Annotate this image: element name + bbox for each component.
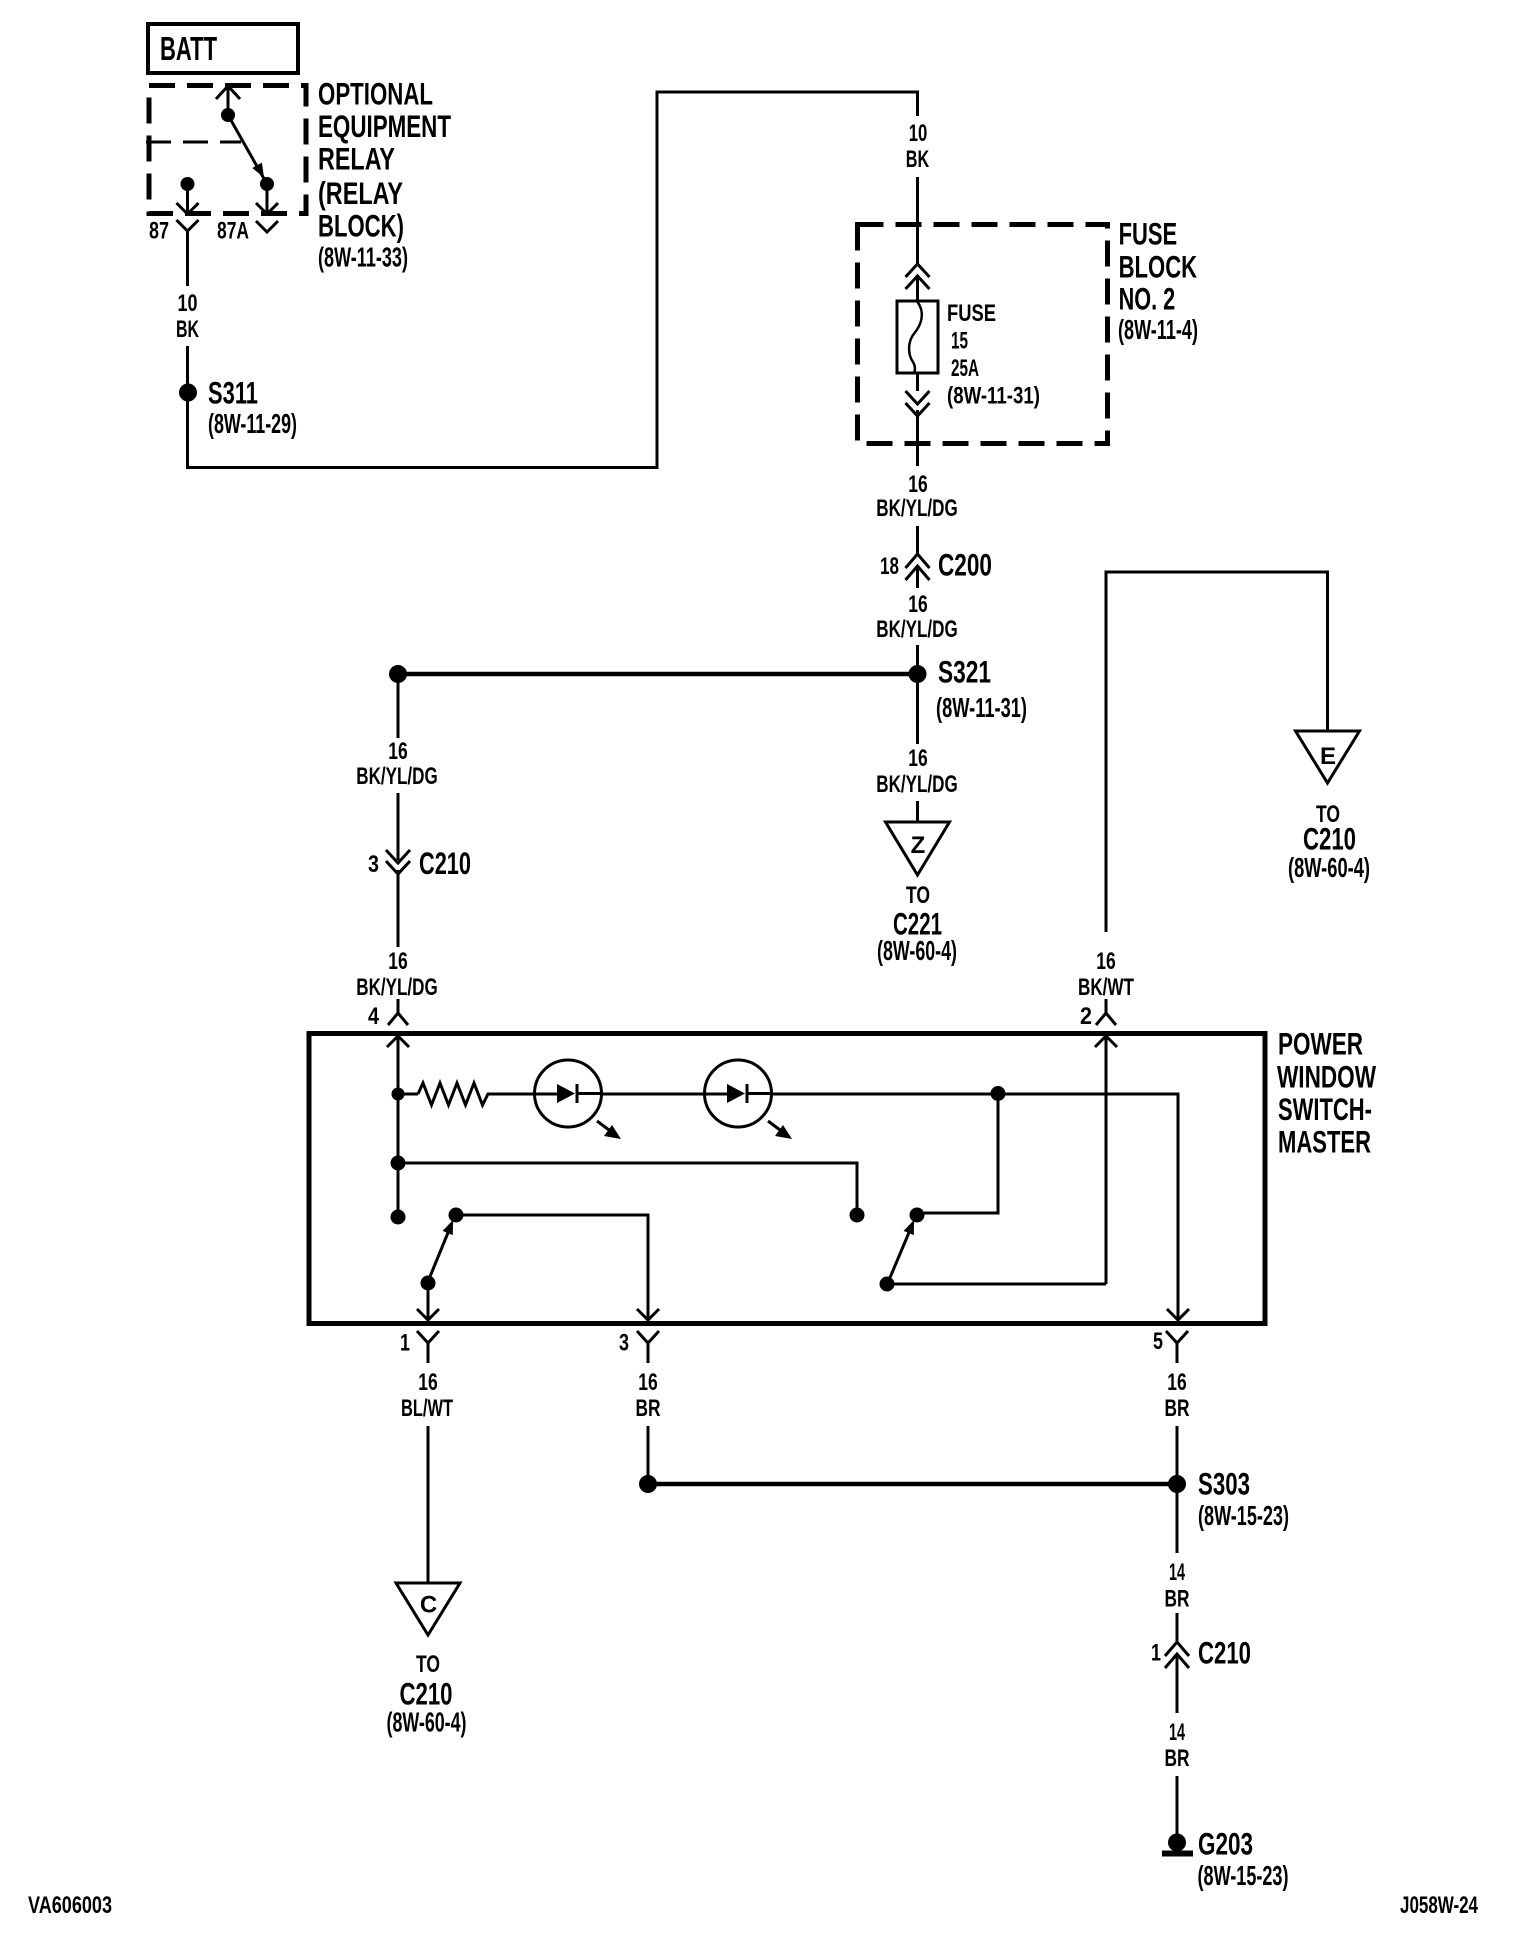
- splice S303 label: [1198, 1466, 1289, 1531]
- svg-text:16: 16: [638, 1369, 657, 1396]
- power window switch-master label: [1277, 1026, 1376, 1160]
- wire left switch pivot to pin 1: [427, 1283, 430, 1320]
- fuse block no. 2 name text: [1118, 216, 1198, 345]
- svg-text:BR: BR: [1165, 1395, 1190, 1422]
- pin 1 connector Y below box: [417, 1331, 439, 1363]
- svg-text:16: 16: [1167, 1369, 1186, 1396]
- connector C200 chevrons (pointing up): [906, 554, 930, 588]
- wire pin 3 to splice S303: [647, 1426, 650, 1476]
- wire S303 down: [1176, 1493, 1179, 1553]
- pin 3 arrow inside box: [637, 1309, 659, 1320]
- pin 5 connector Y below box: [1166, 1331, 1188, 1363]
- svg-text:2: 2: [1080, 1003, 1092, 1030]
- fuse block no. 2 dashed outline: [858, 225, 1108, 444]
- relay coil divider dashed line: [146, 141, 241, 144]
- wire label 16 BR (pin 5): [1165, 1369, 1190, 1422]
- svg-text:3: 3: [619, 1330, 629, 1357]
- svg-text:(8W-60-4): (8W-60-4): [1288, 852, 1370, 883]
- svg-text:BR: BR: [1165, 1745, 1190, 1772]
- splice S321 left dot: [389, 665, 407, 683]
- svg-text:16: 16: [1096, 948, 1115, 975]
- svg-text:BLOCK: BLOCK: [1119, 249, 1198, 285]
- svg-text:(8W-15-23): (8W-15-23): [1198, 1860, 1289, 1891]
- svg-text:BK/YL/DG: BK/YL/DG: [876, 616, 957, 643]
- switch pin 2 connector (outside chevron): [1096, 999, 1116, 1025]
- relay pin 87 terminal arrow: [177, 184, 199, 214]
- wire left rail down from resistor junction: [397, 1094, 400, 1217]
- svg-text:(8W-11-31): (8W-11-31): [936, 692, 1027, 723]
- wire below S321 left dot: [397, 683, 400, 738]
- svg-text:J058W-24: J058W-24: [1400, 1892, 1478, 1919]
- wire out of fuse block: [916, 410, 919, 466]
- junction dot lamp feed: [991, 1086, 1006, 1101]
- svg-text:G203: G203: [1198, 1826, 1253, 1862]
- wire label 16 BK/WT: [1078, 948, 1134, 1001]
- row 2 wire to lock rail: [398, 1163, 857, 1215]
- switch pin 4 arrow inside box: [387, 1036, 409, 1047]
- LED lamp 2: [705, 1060, 772, 1127]
- wire junction down to right switch: [924, 1094, 998, 1213]
- pin 1 arrow inside box: [417, 1309, 439, 1320]
- LED 2 emission arrow: [768, 1121, 792, 1139]
- svg-text:POWER: POWER: [1278, 1026, 1363, 1062]
- wire resistor to LED 1: [491, 1093, 557, 1096]
- svg-text:16: 16: [388, 948, 407, 975]
- wire pin 2 down inside box: [1105, 1036, 1108, 1284]
- wire from S311 around to fuse block (down, right, up, right): [188, 92, 918, 468]
- wire pin 87 down segment: [186, 246, 189, 286]
- svg-text:C210: C210: [1198, 1635, 1251, 1671]
- svg-text:S311: S311: [208, 375, 258, 411]
- destination label TO C210 (pin 1): [387, 1651, 467, 1737]
- connector C210 chevrons (pointing down): [386, 850, 410, 890]
- wire label 16 BK/YL/DG (left branch upper): [356, 738, 437, 790]
- pin 87A connector chevron below block: [256, 221, 278, 232]
- junction dot row 2: [391, 1156, 406, 1171]
- battery feed box BATT: [148, 24, 298, 73]
- splice S303 right dot: [1168, 1475, 1186, 1493]
- svg-text:25A: 25A: [951, 355, 979, 382]
- svg-text:BK: BK: [176, 316, 199, 343]
- svg-text:S321: S321: [938, 654, 991, 690]
- destination label TO C221: [877, 882, 957, 966]
- svg-text:16: 16: [388, 738, 407, 765]
- svg-text:(8W-15-23): (8W-15-23): [1198, 1500, 1289, 1531]
- left switch fixed contact dot: [449, 1208, 464, 1223]
- pin 87 connector Y below block: [177, 220, 199, 246]
- wire to splice S321: [916, 645, 919, 667]
- pin 5 arrow inside box: [1167, 1309, 1189, 1320]
- svg-text:BL/WT: BL/WT: [401, 1395, 453, 1422]
- ground G203 symbol: [1162, 1834, 1193, 1854]
- svg-text:FUSE: FUSE: [947, 300, 996, 327]
- left switch arm with arrow: [429, 1220, 453, 1279]
- svg-text:S303: S303: [1198, 1466, 1250, 1502]
- svg-text:BK/WT: BK/WT: [1078, 974, 1134, 1001]
- svg-text:10: 10: [909, 120, 928, 147]
- wire left switch contact to pin 3: [456, 1215, 648, 1320]
- E branch wire from pin 2 up and over: [1106, 572, 1328, 932]
- right switch pivot dot: [880, 1277, 895, 1292]
- splice S311 dot: [179, 384, 197, 402]
- wire label 16 BR (pin 3): [636, 1369, 661, 1422]
- svg-text:16: 16: [908, 471, 927, 498]
- svg-text:87A: 87A: [217, 218, 249, 245]
- svg-text:NO. 2: NO. 2: [1119, 281, 1176, 317]
- wire label 16 BK/YL/DG (below C200): [876, 591, 957, 643]
- svg-text:C210: C210: [419, 845, 471, 881]
- svg-text:1: 1: [400, 1330, 410, 1357]
- svg-text:(8W-60-4): (8W-60-4): [387, 1706, 467, 1737]
- relay common terminal arrow (to BATT): [216, 86, 240, 116]
- wire to ground G203: [1176, 1776, 1179, 1834]
- wire label 14 BR (upper): [1165, 1559, 1190, 1613]
- svg-text:OPTIONAL: OPTIONAL: [318, 76, 433, 112]
- wire right switch pivot to pin 2 drop: [887, 1283, 1106, 1286]
- svg-text:16: 16: [908, 591, 927, 618]
- svg-text:5: 5: [1153, 1328, 1163, 1355]
- splice S321 label: [936, 654, 1027, 723]
- svg-text:10: 10: [178, 290, 198, 317]
- wire into fuse block: [916, 177, 919, 264]
- svg-text:87: 87: [149, 218, 169, 245]
- relay switch arm (movable contact): [228, 115, 267, 184]
- svg-text:16: 16: [418, 1369, 437, 1396]
- wire LED 1 to LED 2: [601, 1093, 727, 1096]
- left switch pivot dot: [421, 1276, 436, 1291]
- LED 1 emission arrow: [597, 1121, 621, 1139]
- inline connector chevrons below fuse (pointing down): [906, 373, 930, 416]
- inline connector chevrons above fuse (pointing up): [906, 264, 930, 302]
- relay contact dot 87: [181, 177, 195, 191]
- svg-text:MASTER: MASTER: [1278, 1124, 1371, 1160]
- svg-text:TO: TO: [416, 1651, 440, 1678]
- wire below C210: [397, 890, 400, 947]
- svg-text:BR: BR: [636, 1395, 661, 1422]
- svg-text:(8W-11-4): (8W-11-4): [1118, 314, 1198, 345]
- svg-text:(8W-11-29): (8W-11-29): [208, 408, 297, 439]
- svg-text:BATT: BATT: [160, 30, 217, 67]
- svg-text:Z: Z: [911, 832, 926, 859]
- relay pin 87A terminal arrow: [256, 184, 278, 214]
- splice S311 label: [208, 375, 297, 439]
- optional equipment relay dashed block outline: [149, 86, 306, 214]
- svg-text:RELAY: RELAY: [318, 141, 395, 177]
- svg-text:15: 15: [951, 328, 968, 355]
- wire to connector C210 pin 3: [397, 793, 400, 860]
- svg-text:BK/YL/DG: BK/YL/DG: [876, 771, 957, 798]
- svg-text:(8W-60-4): (8W-60-4): [877, 935, 957, 966]
- splice S321 bus wire: [398, 672, 918, 677]
- wire label 16 BL/WT: [401, 1369, 453, 1422]
- wire to splice S311: [186, 346, 189, 384]
- right switch fixed contact dot: [910, 1208, 925, 1223]
- svg-text:C200: C200: [938, 547, 992, 583]
- lock rail end dot: [850, 1208, 865, 1223]
- wire label 16 BK/YL/DG (above C200): [876, 471, 957, 522]
- pin 3 connector Y below box: [637, 1331, 659, 1363]
- LED lamp 1: [535, 1060, 602, 1127]
- wire LED 2 to junction: [772, 1093, 999, 1096]
- svg-text:C: C: [420, 1592, 437, 1619]
- off-page connector triangle Z: [886, 822, 950, 875]
- resistor (illumination dropping): [418, 1083, 491, 1105]
- svg-text:14: 14: [1169, 1719, 1185, 1746]
- off-page connector triangle C: [396, 1583, 460, 1635]
- right switch arm with arrow: [889, 1220, 914, 1280]
- wire label 16 BK/YL/DG (Z branch): [876, 745, 957, 798]
- fuse 15 (25A) element: [897, 301, 938, 373]
- svg-text:BK: BK: [906, 146, 930, 173]
- svg-text:BR: BR: [1165, 1586, 1190, 1613]
- svg-text:BK/YL/DG: BK/YL/DG: [876, 495, 957, 522]
- svg-text:18: 18: [880, 553, 899, 580]
- splice S321 right dot: [909, 665, 927, 683]
- svg-text:E: E: [1320, 743, 1336, 770]
- wire junction to pin 5 drop: [998, 1094, 1178, 1320]
- svg-text:BLOCK): BLOCK): [318, 208, 404, 244]
- svg-text:3: 3: [368, 851, 379, 878]
- svg-text:BK/YL/DG: BK/YL/DG: [356, 763, 437, 790]
- wire pin 1 to C off-page: [427, 1426, 430, 1583]
- wire stub to resistor: [398, 1093, 418, 1096]
- svg-text:(8W-11-31): (8W-11-31): [947, 383, 1040, 410]
- wire below S321 toward Z: [916, 683, 919, 744]
- left rail end dot: [391, 1210, 406, 1225]
- wire to Z off-page triangle: [916, 801, 919, 822]
- wire to connector C200: [916, 526, 919, 554]
- wire label 10 BK (fuse feed): [906, 120, 930, 173]
- switch pin 2 arrow inside box: [1095, 1036, 1117, 1047]
- svg-text:EQUIPMENT: EQUIPMENT: [318, 108, 451, 144]
- svg-text:14: 14: [1169, 1559, 1185, 1586]
- svg-text:FUSE: FUSE: [1119, 216, 1178, 252]
- wire label 10 BK: [176, 290, 199, 343]
- switch pin 4 connector (outside chevron): [388, 999, 408, 1025]
- wire pin 5 to S303: [1176, 1426, 1179, 1476]
- svg-text:4: 4: [368, 1003, 380, 1030]
- svg-text:SWITCH-: SWITCH-: [1278, 1091, 1372, 1127]
- relay contact dot 87A: [260, 177, 274, 191]
- ground G203 label: [1198, 1826, 1289, 1891]
- fuse value label FUSE 15 25A: [947, 300, 1040, 410]
- junction dot at resistor: [392, 1088, 405, 1101]
- svg-text:(8W-11-33): (8W-11-33): [318, 241, 408, 272]
- wire label 16 BK/YL/DG (left branch lower): [356, 948, 437, 1001]
- relay block name text: [318, 76, 451, 273]
- connector C210 chevrons (pointing up, ground side): [1165, 1642, 1189, 1713]
- splice S303 left dot: [639, 1475, 657, 1493]
- wire pin 4 feed inside box: [397, 1036, 400, 1094]
- svg-text:BK/YL/DG: BK/YL/DG: [356, 974, 437, 1001]
- wire label 14 BR (lower): [1165, 1719, 1190, 1772]
- svg-text:(RELAY: (RELAY: [318, 175, 403, 211]
- wire to connector C210 pin 1: [1176, 1613, 1179, 1642]
- svg-text:WINDOW: WINDOW: [1277, 1059, 1376, 1095]
- destination label TO C210 (E branch): [1288, 801, 1370, 883]
- svg-text:1: 1: [1151, 1640, 1161, 1667]
- svg-text:16: 16: [908, 745, 927, 772]
- svg-text:VA606003: VA606003: [28, 1892, 112, 1919]
- power window switch-master box: [309, 1034, 1265, 1324]
- off-page connector triangle E: [1296, 731, 1360, 783]
- relay common contact dot: [221, 108, 235, 122]
- splice S303 bus wire: [648, 1482, 1177, 1487]
